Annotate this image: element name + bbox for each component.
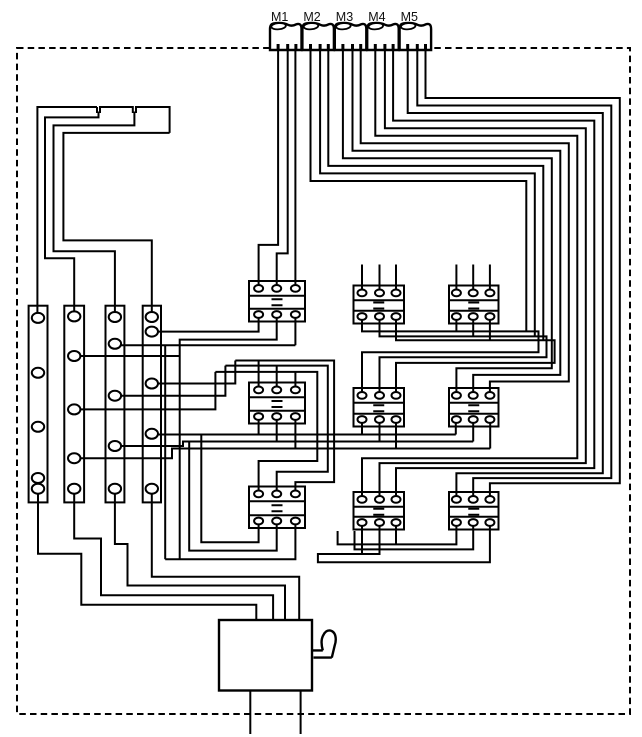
wire X3 to K4.2/K7 arch <box>121 366 328 494</box>
wire K2/K3 rail 5 to K5 top <box>380 317 547 396</box>
motor connector M4 <box>367 10 399 50</box>
contactor K9 (row 3 R) <box>449 492 499 530</box>
wire rail K4/K5/K6 out 2 <box>121 417 474 551</box>
stub K3 terminal 5 tap <box>472 317 474 337</box>
wire link J1-J2 <box>100 107 133 113</box>
terminal bus bar X3 <box>106 306 125 503</box>
contactor K8 (row 3 M) <box>354 492 405 530</box>
terminals of block at 354,286 <box>358 290 401 320</box>
wire Q1 output L <box>249 691 251 735</box>
wire link J2-X4 riser <box>136 107 170 133</box>
wire M3-W to K6 top <box>361 50 569 395</box>
terminal bus bar X4 <box>143 306 161 503</box>
wire M5-U to K9 top <box>408 50 603 499</box>
wire M5-W to K9 top <box>426 50 620 499</box>
svg-text:M1: M1 <box>271 10 288 24</box>
stub K3 top terminal 2 <box>472 265 474 293</box>
wire M4-W to K8 top <box>393 50 594 499</box>
wire M1-U to K1 terminal 1 <box>259 50 279 288</box>
terminal circles of bus bar X3 <box>109 312 121 494</box>
wire M3-U to K6 top <box>343 50 552 395</box>
wire X2 to K1 terminal 5 drop <box>80 315 296 560</box>
wire rail K4/K5/K6 out 1 <box>157 417 456 543</box>
wire M2-U to rail <box>311 50 527 331</box>
stub K3 top terminal 3 <box>489 265 491 293</box>
terminal bus bar X2 <box>64 306 84 503</box>
contactor K7 (row 3 L) <box>249 487 305 529</box>
wire M4-U to K8 top <box>362 50 577 499</box>
wire X4 to Q1 <box>152 494 299 620</box>
terminals of block at 449,492 <box>452 496 495 526</box>
wire X1 to Q1 <box>38 494 256 620</box>
wire K8/K9 link 3 <box>318 523 490 563</box>
terminals of block at 354,388 <box>358 392 401 423</box>
wire X4 to K1 terminal 4 <box>158 315 259 332</box>
wire K2/K3 rail 4 to K5 top <box>362 317 539 396</box>
stub K2 top terminal 3 <box>395 265 397 293</box>
svg-text:M4: M4 <box>368 10 385 24</box>
wire X3 to Q1 <box>115 494 285 620</box>
motor connector M2 <box>302 10 334 50</box>
wire Q1 output N <box>300 691 302 735</box>
terminals of block at 249,281 <box>254 285 300 318</box>
terminal circles of bus bar X1 <box>32 313 44 494</box>
motor connector M3 <box>335 10 367 50</box>
stub K3 top terminal 1 <box>455 265 457 293</box>
wire M2-V to rail <box>320 50 535 336</box>
terminal circles of bus bar X2 <box>68 311 80 493</box>
wire M4-V to K8 top <box>380 50 586 499</box>
svg-text:M2: M2 <box>303 10 320 24</box>
contactor K4 (row 2 L) <box>249 383 305 424</box>
contactor K6 (row 2 R) <box>449 388 499 427</box>
wire M1-W to K1 terminal 3 <box>294 50 296 288</box>
wire M3-V to K6 top <box>353 50 561 395</box>
terminal circles of bus bar X4 <box>146 312 158 494</box>
motor connector M1 <box>270 10 302 50</box>
terminals of block at 449,286 <box>452 290 495 320</box>
terminals of block at 354,492 <box>358 496 401 526</box>
svg-text:M3: M3 <box>336 10 353 24</box>
wire K8/K9 link 1 <box>338 523 457 545</box>
wire X2 to K4.3/K7 arch <box>80 372 317 494</box>
contactor K3 (row 1 R) <box>449 286 499 324</box>
connector tick J1a <box>96 107 98 113</box>
wire M5-V to K9 top <box>417 50 611 499</box>
stub K2 top terminal 2 <box>379 265 381 293</box>
terminal bus bar X1 <box>29 306 48 503</box>
wire M1-V to K1 terminal 2 <box>277 50 288 288</box>
terminals of block at 249,486 <box>254 491 300 525</box>
wire K2/K3 rail 6 to K5 top <box>396 317 555 396</box>
wire X4 to K4.1/K7 arch <box>157 361 334 494</box>
main switch Q1 box <box>219 620 312 691</box>
stub K3 terminal 6 tap <box>489 317 491 341</box>
contactor K2 (row 1 M) <box>354 286 405 324</box>
wire bus X1 feeder <box>37 107 97 314</box>
contactor K1 (row 1 L) <box>249 281 305 322</box>
terminals of block at 449,388 <box>452 392 495 423</box>
motor connector M5 <box>400 10 432 50</box>
wire bus X4 feeder <box>63 133 169 313</box>
wire bus X3 feeder <box>54 112 135 313</box>
wire K8/K9 link 2 <box>355 523 474 550</box>
wire bus X2 feeder <box>45 112 99 313</box>
stub K2 top terminal 1 <box>361 265 363 293</box>
wire X2 to Q1 <box>74 494 273 620</box>
contactor K5 (row 2 M) <box>354 388 405 427</box>
wire X3 to K1 terminal 6 drop <box>121 315 296 560</box>
wire rail K4/K5/K6 out 3 <box>80 417 490 459</box>
svg-text:M5: M5 <box>401 10 418 24</box>
wire M2-W to rail <box>328 50 543 340</box>
terminals of block at 249,382 <box>254 387 300 420</box>
stub K3 terminal 4 tap <box>455 317 457 332</box>
main switch Q1 handle <box>312 630 336 657</box>
